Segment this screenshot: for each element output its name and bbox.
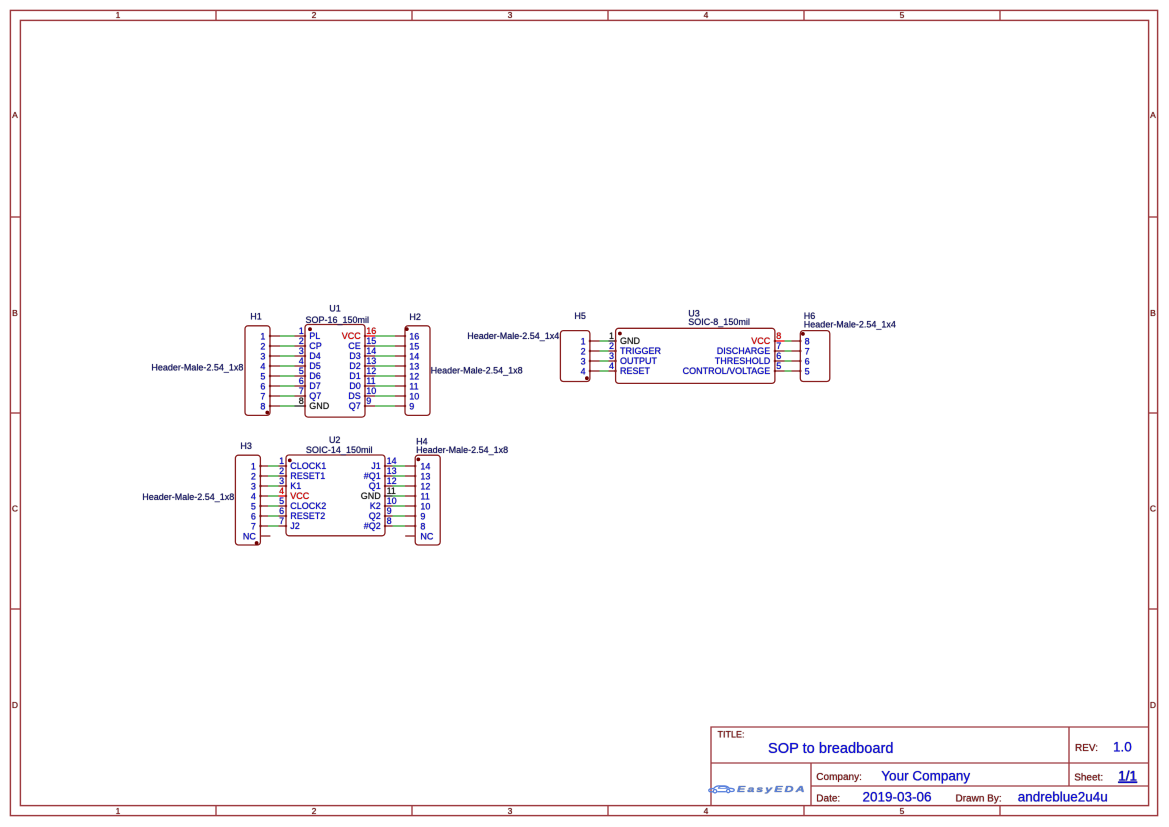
svg-text:THRESHOLD: THRESHOLD <box>715 356 771 366</box>
svg-text:11: 11 <box>387 486 396 496</box>
svg-text:10: 10 <box>366 386 376 396</box>
svg-text:Q7: Q7 <box>349 401 361 411</box>
svg-text:7: 7 <box>805 347 810 357</box>
svg-text:5: 5 <box>805 367 810 377</box>
svg-text:GND: GND <box>309 401 330 411</box>
header H4 body <box>415 455 440 545</box>
svg-text:1: 1 <box>581 337 586 347</box>
svg-text:3: 3 <box>609 351 614 361</box>
svg-text:H3: H3 <box>240 441 252 451</box>
svg-text:15: 15 <box>366 336 376 346</box>
svg-text:6: 6 <box>299 376 304 386</box>
svg-text:Date:: Date: <box>816 794 840 805</box>
svg-text:U2: U2 <box>329 435 341 445</box>
svg-text:H5: H5 <box>574 311 586 321</box>
svg-text:1: 1 <box>116 806 121 816</box>
svg-text:11: 11 <box>420 492 429 502</box>
svg-text:7: 7 <box>251 522 256 532</box>
svg-text:2: 2 <box>251 472 256 482</box>
svg-text:14: 14 <box>409 352 419 362</box>
svg-text:3: 3 <box>279 476 284 486</box>
svg-text:5: 5 <box>900 806 905 816</box>
pin-1 dot of U3 <box>618 332 622 336</box>
svg-text:6: 6 <box>805 357 810 367</box>
svg-text:OUTPUT: OUTPUT <box>620 356 658 366</box>
wire H3-U2 row 3 <box>259 485 287 487</box>
svg-text:D1: D1 <box>349 371 361 381</box>
svg-text:PL: PL <box>309 331 320 341</box>
svg-text:C: C <box>12 504 18 514</box>
svg-text:4: 4 <box>251 492 256 502</box>
svg-text:1: 1 <box>116 10 121 20</box>
wire U3-H6 row 3 <box>774 360 802 362</box>
svg-text:6: 6 <box>251 512 256 522</box>
svg-text:12: 12 <box>387 476 397 486</box>
IC U3 body <box>616 328 775 383</box>
svg-text:15: 15 <box>409 342 419 352</box>
wire H3-U2 row 1 <box>259 465 287 467</box>
wire U1-H2 row 2 <box>364 345 406 347</box>
svg-text:Header-Male-2.54_1x8: Header-Male-2.54_1x8 <box>416 445 508 455</box>
svg-text:U1: U1 <box>329 303 341 313</box>
wire H1-U1 row 6 <box>269 385 306 387</box>
wire U1-H2 row 4 <box>364 365 406 367</box>
svg-text:EasyEDA: EasyEDA <box>737 785 807 795</box>
svg-text:andreblue2u4u: andreblue2u4u <box>1018 790 1108 805</box>
svg-text:16: 16 <box>366 326 376 336</box>
svg-text:SOP-16_150mil: SOP-16_150mil <box>306 315 370 325</box>
svg-text:9: 9 <box>366 396 371 406</box>
header H3 body <box>235 455 260 545</box>
svg-text:8: 8 <box>387 516 392 526</box>
wire H1-U1 row 7 <box>269 395 306 397</box>
svg-text:CE: CE <box>348 341 361 351</box>
svg-text:11: 11 <box>366 376 375 386</box>
wire H3-U2 row 6 <box>259 515 287 517</box>
svg-text:Header-Male-2.54_1x4: Header-Male-2.54_1x4 <box>467 331 559 341</box>
svg-text:D0: D0 <box>349 381 361 391</box>
svg-text:5: 5 <box>299 366 304 376</box>
svg-text:7: 7 <box>260 392 265 402</box>
svg-text:4: 4 <box>299 356 304 366</box>
svg-text:5: 5 <box>279 496 284 506</box>
wire U1-H2 row 3 <box>364 355 406 357</box>
svg-text:Header-Male-2.54_1x8: Header-Male-2.54_1x8 <box>142 492 234 502</box>
svg-text:J2: J2 <box>290 521 300 531</box>
svg-text:9: 9 <box>409 402 414 412</box>
svg-text:5: 5 <box>260 372 265 382</box>
svg-text:Your Company: Your Company <box>881 769 970 784</box>
IC U1 body <box>305 325 365 418</box>
svg-text:NC: NC <box>420 532 433 542</box>
pin-1 dot of H1 <box>265 411 269 415</box>
svg-text:8: 8 <box>420 522 425 532</box>
svg-text:10: 10 <box>420 502 430 512</box>
svg-text:4: 4 <box>581 367 586 377</box>
svg-text:8: 8 <box>805 337 810 347</box>
svg-text:Q2: Q2 <box>369 511 381 521</box>
svg-text:CLOCK1: CLOCK1 <box>290 461 326 471</box>
svg-text:2019-03-06: 2019-03-06 <box>863 790 932 805</box>
title block frame <box>711 727 1149 806</box>
pin-1 dot of U1 <box>308 327 312 331</box>
svg-text:13: 13 <box>409 362 419 372</box>
IC U2 body <box>286 455 385 536</box>
svg-text:8: 8 <box>776 331 781 341</box>
svg-text:1/1: 1/1 <box>1118 769 1137 784</box>
svg-text:VCC: VCC <box>290 491 310 501</box>
pin-1 dot of U2 <box>288 459 292 463</box>
svg-text:5: 5 <box>776 361 781 371</box>
svg-text:12: 12 <box>420 482 430 492</box>
svg-text:Q1: Q1 <box>369 481 381 491</box>
svg-text:REV:: REV: <box>1075 743 1098 754</box>
wire U1-H2 row 7 <box>364 395 406 397</box>
svg-text:14: 14 <box>387 456 397 466</box>
svg-text:16: 16 <box>409 332 419 342</box>
svg-text:12: 12 <box>366 366 376 376</box>
svg-text:D2: D2 <box>349 361 361 371</box>
wire H5-U3 row 4 <box>589 370 617 372</box>
svg-text:H1: H1 <box>250 312 262 322</box>
svg-text:GND: GND <box>361 491 382 501</box>
svg-text:3: 3 <box>508 806 513 816</box>
svg-text:11: 11 <box>409 382 418 392</box>
svg-text:RESET1: RESET1 <box>290 471 325 481</box>
svg-text:D: D <box>12 700 18 710</box>
header H5 body <box>560 331 590 382</box>
svg-text:CONTROL/VOLTAGE: CONTROL/VOLTAGE <box>683 366 771 376</box>
svg-text:H2: H2 <box>409 312 421 322</box>
pin-1 dot of H3 <box>255 541 259 545</box>
wire U1-H2 row 5 <box>364 375 406 377</box>
wire U2-H4 row 2 <box>384 475 416 477</box>
svg-text:Header-Male-2.54_1x4: Header-Male-2.54_1x4 <box>804 319 896 329</box>
svg-text:CP: CP <box>309 341 322 351</box>
svg-text:D4: D4 <box>309 351 321 361</box>
wire H3-U2 row 7 <box>259 525 287 527</box>
wire U2-H4 row 3 <box>384 485 416 487</box>
NC pin stub of H3 <box>260 535 270 537</box>
svg-text:13: 13 <box>387 466 397 476</box>
wire H1-U1 row 4 <box>269 365 306 367</box>
svg-text:2: 2 <box>279 466 284 476</box>
svg-text:4: 4 <box>260 362 265 372</box>
svg-text:5: 5 <box>251 502 256 512</box>
svg-text:2: 2 <box>312 806 317 816</box>
wire U2-H4 row 4 <box>384 495 416 497</box>
svg-text:K2: K2 <box>370 501 381 511</box>
wire U1-H2 row 8 <box>364 405 406 407</box>
svg-text:VCC: VCC <box>342 331 362 341</box>
svg-text:B: B <box>1150 308 1156 318</box>
svg-text:Header-Male-2.54_1x8: Header-Male-2.54_1x8 <box>431 366 523 376</box>
NC pin stub of H4 <box>405 535 415 537</box>
svg-text:1.0: 1.0 <box>1113 740 1132 755</box>
svg-text:D5: D5 <box>309 361 321 371</box>
svg-text:Header-Male-2.54_1x8: Header-Male-2.54_1x8 <box>151 362 243 372</box>
svg-text:13: 13 <box>420 472 430 482</box>
pin-1 dot of H2 <box>405 327 409 331</box>
svg-text:2: 2 <box>299 336 304 346</box>
EasyEDA logo <box>709 785 807 795</box>
svg-text:RESET2: RESET2 <box>290 511 325 521</box>
pin-1 dot of H5 <box>585 376 589 380</box>
svg-text:1: 1 <box>299 326 304 336</box>
svg-text:D: D <box>1150 700 1156 710</box>
svg-text:TITLE:: TITLE: <box>718 730 745 740</box>
wire U3-H6 row 4 <box>774 370 802 372</box>
svg-text:TRIGGER: TRIGGER <box>620 346 662 356</box>
svg-text:1: 1 <box>260 332 265 342</box>
svg-text:#Q2: #Q2 <box>364 521 381 531</box>
svg-text:B: B <box>12 308 18 318</box>
wire H1-U1 row 2 <box>269 345 306 347</box>
svg-text:C: C <box>1150 504 1156 514</box>
svg-text:NC: NC <box>243 532 256 542</box>
svg-text:Sheet:: Sheet: <box>1074 773 1103 784</box>
svg-text:SOP to breadboard: SOP to breadboard <box>768 741 894 757</box>
wire U2-H4 row 5 <box>384 505 416 507</box>
svg-text:A: A <box>1150 110 1156 120</box>
column ticks top/bottom <box>215 11 217 21</box>
wire H1-U1 row 3 <box>269 355 306 357</box>
svg-text:2: 2 <box>609 341 614 351</box>
svg-text:A: A <box>12 110 18 120</box>
wire U1-H2 row 6 <box>364 385 406 387</box>
svg-text:1: 1 <box>251 462 256 472</box>
svg-text:7: 7 <box>299 386 304 396</box>
svg-text:RESET: RESET <box>620 366 651 376</box>
svg-text:14: 14 <box>420 462 430 472</box>
wire H1-U1 row 5 <box>269 375 306 377</box>
svg-text:SOIC-8_150mil: SOIC-8_150mil <box>688 317 750 327</box>
svg-text:14: 14 <box>366 346 376 356</box>
svg-text:3: 3 <box>299 346 304 356</box>
svg-text:10: 10 <box>409 392 419 402</box>
wire U2-H4 row 7 <box>384 525 416 527</box>
wire U3-H6 row 1 <box>774 340 802 342</box>
wire U2-H4 row 1 <box>384 465 416 467</box>
svg-text:4: 4 <box>704 10 709 20</box>
wire H5-U3 row 2 <box>589 350 617 352</box>
svg-text:7: 7 <box>776 341 781 351</box>
svg-text:12: 12 <box>409 372 419 382</box>
wire H1-U1 row 8 <box>269 405 306 407</box>
svg-text:CLOCK2: CLOCK2 <box>290 501 326 511</box>
svg-text:Q7: Q7 <box>309 391 321 401</box>
svg-text:8: 8 <box>260 402 265 412</box>
svg-text:K1: K1 <box>290 481 301 491</box>
svg-text:D6: D6 <box>309 371 321 381</box>
wire U1-H2 row 1 <box>364 335 406 337</box>
wire H3-U2 row 5 <box>259 505 287 507</box>
svg-text:#Q1: #Q1 <box>364 471 381 481</box>
svg-text:8: 8 <box>299 396 304 406</box>
svg-text:9: 9 <box>420 512 425 522</box>
pin-1 dot of H4 <box>416 458 420 462</box>
svg-text:2: 2 <box>581 347 586 357</box>
svg-text:4: 4 <box>704 806 709 816</box>
wire H3-U2 row 2 <box>259 475 287 477</box>
svg-text:10: 10 <box>387 496 397 506</box>
svg-text:2: 2 <box>312 10 317 20</box>
header H1 body <box>245 326 270 416</box>
svg-text:VCC: VCC <box>751 336 771 346</box>
wire H1-U1 row 1 <box>269 335 306 337</box>
row ticks left/right <box>11 216 21 218</box>
wire H5-U3 row 3 <box>589 360 617 362</box>
svg-text:1: 1 <box>279 456 284 466</box>
svg-text:DS: DS <box>348 391 361 401</box>
wire U2-H4 row 6 <box>384 515 416 517</box>
header H6 body <box>800 331 830 382</box>
svg-text:4: 4 <box>279 486 284 496</box>
wire U3-H6 row 2 <box>774 350 802 352</box>
svg-text:SOIC-14_150mil: SOIC-14_150mil <box>306 445 373 455</box>
svg-text:J1: J1 <box>371 461 381 471</box>
svg-text:1: 1 <box>609 331 614 341</box>
svg-text:7: 7 <box>279 516 284 526</box>
svg-text:4: 4 <box>609 361 614 371</box>
svg-text:3: 3 <box>581 357 586 367</box>
svg-text:2: 2 <box>260 342 265 352</box>
wire H5-U3 row 1 <box>589 340 617 342</box>
svg-text:D7: D7 <box>309 381 321 391</box>
svg-text:9: 9 <box>387 506 392 516</box>
svg-text:3: 3 <box>251 482 256 492</box>
svg-text:6: 6 <box>279 506 284 516</box>
svg-text:6: 6 <box>260 382 265 392</box>
svg-text:DISCHARGE: DISCHARGE <box>717 346 771 356</box>
svg-text:5: 5 <box>900 10 905 20</box>
svg-text:3: 3 <box>508 10 513 20</box>
header H2 body <box>405 326 430 416</box>
svg-text:13: 13 <box>366 356 376 366</box>
pin-1 dot of H6 <box>801 332 805 336</box>
svg-text:Company:: Company: <box>816 772 862 783</box>
svg-text:D3: D3 <box>349 351 361 361</box>
svg-text:Drawn By:: Drawn By: <box>956 794 1002 805</box>
wire H3-U2 row 4 <box>259 495 287 497</box>
svg-text:GND: GND <box>620 336 641 346</box>
svg-text:6: 6 <box>776 351 781 361</box>
svg-text:3: 3 <box>260 352 265 362</box>
